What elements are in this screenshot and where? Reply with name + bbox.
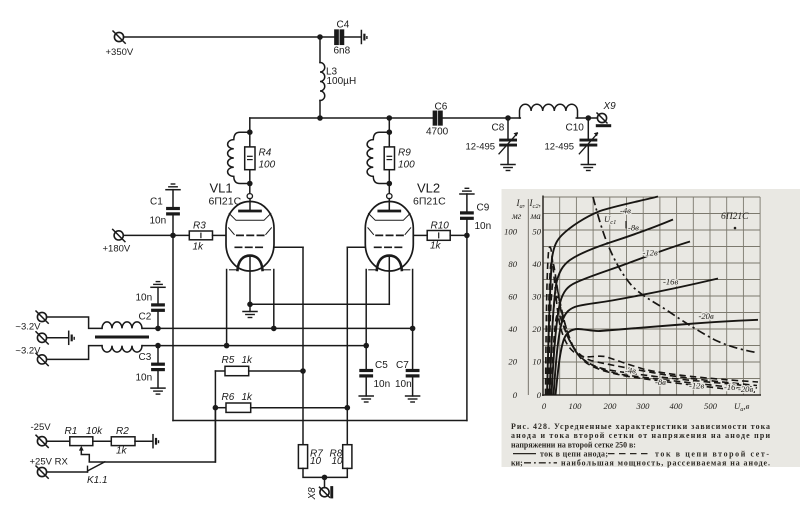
svg-text:~3.2V: ~3.2V xyxy=(15,322,41,333)
tube VL2 screen grid (dashed) xyxy=(375,246,404,248)
svg-text:10n: 10n xyxy=(150,216,167,227)
graph y-axis tick labels xyxy=(504,227,542,401)
svg-text:C2: C2 xyxy=(139,312,152,323)
resistor R2 xyxy=(111,437,135,446)
graph axes xyxy=(542,196,761,397)
svg-text:100: 100 xyxy=(398,160,415,171)
node R4 bottom xyxy=(247,181,253,187)
svg-text:+180V: +180V xyxy=(103,244,131,255)
resistor R4 xyxy=(245,147,255,170)
svg-text:20: 20 xyxy=(508,357,517,367)
svg-text:400: 400 xyxy=(670,401,684,411)
svg-text:-20в: -20в xyxy=(699,311,714,321)
node R9 top xyxy=(387,129,393,135)
tube VL2 envelope xyxy=(365,194,413,271)
ground right of T2 xyxy=(69,331,75,344)
capacitor C1 xyxy=(166,190,180,236)
svg-text:ма: ма xyxy=(530,211,542,221)
capacitor C6 xyxy=(433,111,442,125)
svg-text:100: 100 xyxy=(569,401,583,411)
svg-text:40: 40 xyxy=(532,259,541,269)
svg-text:+350V: +350V xyxy=(106,47,134,58)
svg-text:C10: C10 xyxy=(566,123,585,134)
svg-text:C5: C5 xyxy=(375,360,388,371)
svg-text:10: 10 xyxy=(310,456,322,467)
svg-text:100: 100 xyxy=(259,160,276,171)
svg-text:80: 80 xyxy=(508,259,517,269)
svg-text:-12в: -12в xyxy=(689,381,704,391)
wire R10 to C9 node xyxy=(450,234,467,236)
wire VL2 screen to R8 column xyxy=(347,247,365,444)
graph grid xyxy=(543,197,760,395)
svg-text:-16: -16 xyxy=(724,382,736,392)
svg-text:наибольшая мощность, рассеивае: наибольшая мощность, рассеиваемая на ано… xyxy=(561,459,770,468)
svg-text:анода и тока второй сетки от н: анода и тока второй сетки от напряжения … xyxy=(511,431,770,440)
svg-text:10: 10 xyxy=(532,357,541,367)
wire filament line lower xyxy=(158,345,366,347)
capacitor C5 xyxy=(359,346,373,396)
svg-text:K1.1: K1.1 xyxy=(87,475,108,486)
tube VL1 cathode xyxy=(230,256,271,270)
svg-text:100µH: 100µH xyxy=(327,76,357,87)
terminal filament mid xyxy=(36,332,48,344)
resistor R8 xyxy=(343,445,352,469)
svg-text:-25V: -25V xyxy=(31,422,52,433)
svg-text:C3: C3 xyxy=(139,352,152,363)
svg-text:C1: C1 xyxy=(150,197,163,208)
terminal +350V xyxy=(113,31,125,43)
svg-text:R4: R4 xyxy=(259,148,272,159)
wire +180V down to bottom bus xyxy=(172,235,174,420)
wire T1 to transformer xyxy=(47,317,102,328)
svg-text:40: 40 xyxy=(508,324,517,334)
resistor R3 xyxy=(189,231,212,240)
curve Ia Uc1=-8V (solid) xyxy=(550,220,674,396)
resistor R10 xyxy=(427,231,450,241)
svg-text:500: 500 xyxy=(704,401,718,411)
svg-text:10n: 10n xyxy=(374,379,391,390)
tube VL2 anode xyxy=(379,199,400,211)
svg-text:20: 20 xyxy=(532,324,541,334)
node R6 right / R8 column xyxy=(345,405,351,411)
wire T2 to ground xyxy=(47,337,69,339)
graph y-axis header Ia/Ic2 xyxy=(511,198,541,221)
svg-text:VL1: VL1 xyxy=(210,181,233,196)
tube VL1 anode xyxy=(240,199,261,211)
resistor R9 xyxy=(384,147,394,170)
node C10 xyxy=(586,115,592,121)
wire +180V to R3 xyxy=(123,234,189,236)
potentiometer R1 xyxy=(70,437,93,446)
svg-text:R2: R2 xyxy=(116,426,129,437)
svg-text:~3.2V: ~3.2V xyxy=(15,346,41,357)
wire winding to C2 node xyxy=(142,327,158,329)
svg-text:1k: 1k xyxy=(242,392,254,403)
svg-text:напряжении на второй сетке 250: напряжении на второй сетке 250 в: xyxy=(511,440,636,449)
svg-text:R6: R6 xyxy=(222,392,235,403)
caption legend strokes xyxy=(513,453,536,455)
wire VL1 anode branch xyxy=(249,118,251,194)
svg-text:ки;: ки; xyxy=(511,459,523,468)
curve Ia Uc1=-12V (solid) xyxy=(552,242,691,396)
wire +350V rail xyxy=(124,36,336,38)
terminal ~3.2V upper xyxy=(36,311,48,323)
wire anode bus xyxy=(250,117,434,119)
inductor output tank coil xyxy=(520,104,578,118)
svg-text:10k: 10k xyxy=(86,426,103,437)
wire VL2 anode branch xyxy=(388,118,390,194)
svg-text:X8: X8 xyxy=(307,487,318,501)
wire filament line upper xyxy=(158,327,413,329)
svg-text:100: 100 xyxy=(504,227,518,237)
node R5 right / screen column xyxy=(300,368,306,374)
terminal +25V RX xyxy=(36,466,48,478)
graph x-axis tick labels xyxy=(542,401,750,413)
svg-text:300: 300 xyxy=(636,401,651,411)
wire coil to X9 xyxy=(576,117,597,119)
svg-text:0: 0 xyxy=(513,390,518,400)
svg-text:C7: C7 xyxy=(396,360,409,371)
connector X8 xyxy=(320,477,334,498)
wire VL2 heater right xyxy=(412,270,414,329)
resistor R5 xyxy=(215,366,303,375)
tube VL2 control grid (dashed) xyxy=(376,234,403,236)
capacitor C3 xyxy=(151,346,165,388)
wire C6 to C8 node xyxy=(442,117,520,119)
svg-text:10: 10 xyxy=(332,456,344,467)
svg-text:200: 200 xyxy=(604,401,618,411)
svg-text:ток в цепи анода;: ток в цепи анода; xyxy=(540,449,608,458)
node anode bus / VL2 branch xyxy=(387,115,393,121)
wire VL1 screen to R7 column xyxy=(274,247,303,444)
tube VL2 beam plates xyxy=(368,214,411,235)
wire R1 to R2 xyxy=(93,440,112,442)
wire R3 to VL1 grid xyxy=(213,234,227,236)
connector X9 xyxy=(596,113,611,127)
wire bus up to R10/C9 node xyxy=(466,235,468,420)
ground below C10 xyxy=(581,165,595,171)
svg-text:C4: C4 xyxy=(337,20,350,31)
svg-text:6П21С: 6П21С xyxy=(209,196,242,208)
curve Ia Uc1=-4V (solid) xyxy=(547,197,658,396)
svg-text:12-495: 12-495 xyxy=(545,142,575,153)
svg-text:-8в: -8в xyxy=(655,377,666,387)
svg-text:-4в: -4в xyxy=(620,206,631,216)
inductor parallel with R4 xyxy=(228,132,250,183)
svg-text:30: 30 xyxy=(531,292,541,302)
wire R2 to ground xyxy=(135,440,153,442)
switch K1.1 contact xyxy=(88,462,105,472)
svg-text:-16в: -16в xyxy=(663,277,678,287)
wire VL1 cathode down xyxy=(249,256,251,304)
terminal ~3.2V lower xyxy=(36,353,48,365)
curve Ic2 -8V (dashed) xyxy=(547,262,757,395)
resistor R6 xyxy=(215,403,347,412)
wire VL1 heater right xyxy=(273,270,275,329)
node C8 xyxy=(505,115,511,121)
svg-text:4700: 4700 xyxy=(426,127,449,138)
ground above C1 xyxy=(166,184,180,190)
ground below C8 xyxy=(501,165,515,171)
inductor L3 xyxy=(320,37,325,118)
svg-text:VL2: VL2 xyxy=(417,181,440,196)
capacitor C7 xyxy=(406,328,420,396)
ground above C9 xyxy=(460,188,474,194)
node R6 left xyxy=(213,405,219,411)
curve Ic2 -16V (dashed) xyxy=(550,297,757,395)
node heater junctions xyxy=(271,326,277,332)
node C1/R3 junction xyxy=(170,233,176,239)
svg-text:Рис. 428. Усредненные характер: Рис. 428. Усредненные характеристики зав… xyxy=(511,422,770,431)
ground above C2 xyxy=(151,282,165,288)
curve Ic2 -12V (dashed) xyxy=(549,280,758,395)
wire +25V RX to switch xyxy=(47,471,88,473)
svg-text:C8: C8 xyxy=(492,123,505,134)
svg-text:R5: R5 xyxy=(222,355,235,366)
terminal +180V xyxy=(113,229,125,241)
capacitor C2 xyxy=(151,287,165,328)
svg-text:60: 60 xyxy=(508,292,517,302)
svg-text:1k: 1k xyxy=(193,242,205,253)
wire VL2 cathode down xyxy=(388,256,390,304)
node R4 top xyxy=(247,129,253,135)
potentiometer R1 wiper xyxy=(79,446,89,462)
variable capacitor C10 xyxy=(579,118,598,164)
variable capacitor C8 xyxy=(499,118,518,164)
svg-text:0: 0 xyxy=(542,401,547,411)
svg-text:6П21С: 6П21С xyxy=(413,196,446,208)
wire R7/R8 bottoms to X8 xyxy=(303,468,347,477)
resistor R7 xyxy=(298,445,307,469)
node R9 bottom xyxy=(387,181,393,187)
figure caption xyxy=(511,422,770,468)
tube VL1 control grid (dashed) xyxy=(237,234,264,236)
wire winding to C3 node xyxy=(142,345,158,347)
wire VL2 grid to R10 xyxy=(413,234,427,236)
wire R5 left down to R6 xyxy=(214,371,216,462)
transformer secondary winding xyxy=(102,346,142,353)
svg-text:R10: R10 xyxy=(431,221,450,232)
wire bias line to R6 node xyxy=(89,408,215,462)
node anode bus / L3 xyxy=(317,115,323,121)
tube VL2 cathode xyxy=(369,256,410,270)
svg-text:6n8: 6n8 xyxy=(334,46,351,57)
svg-text:R9: R9 xyxy=(398,148,411,159)
ground below C7 xyxy=(406,396,420,402)
svg-text:1k: 1k xyxy=(430,241,442,252)
transformer core xyxy=(97,336,148,339)
graph panel background (scanned chart inset) xyxy=(502,189,800,467)
wire VL1 heater left xyxy=(226,270,228,346)
svg-text:10n: 10n xyxy=(395,379,412,390)
svg-text:X9: X9 xyxy=(603,101,617,112)
capacitor C4 xyxy=(335,30,344,44)
wire cathode tie xyxy=(250,303,389,305)
svg-text:1k: 1k xyxy=(242,355,254,366)
curve Ic2 -20V (dashed) xyxy=(552,314,758,395)
ground right of R2 xyxy=(153,435,159,448)
curve Ia Uc1=-20V (solid) xyxy=(556,320,759,395)
wire VL2 heater left xyxy=(365,270,367,346)
svg-text:R3: R3 xyxy=(193,221,206,232)
ground VL1 cathode xyxy=(243,304,257,317)
curve max anode dissipation (dash-dot) xyxy=(593,197,756,353)
svg-text:10n: 10n xyxy=(136,373,153,384)
svg-text:ток в цепи второй сет-: ток в цепи второй сет- xyxy=(655,449,769,458)
svg-text:-20в: -20в xyxy=(738,384,753,394)
wire -25V to R1 xyxy=(47,440,70,442)
node L3/C4 junction xyxy=(317,34,323,40)
svg-text:мг: мг xyxy=(511,211,522,221)
svg-text:+25V RX: +25V RX xyxy=(30,457,69,468)
ground below C3 xyxy=(151,388,165,394)
capacitor C9 xyxy=(460,194,474,235)
ground below C5 xyxy=(359,396,373,402)
wire C4 to ground xyxy=(344,36,361,38)
tube VL1 envelope xyxy=(226,194,274,271)
tube VL1 beam plates xyxy=(229,214,272,235)
svg-text:6П21С: 6П21С xyxy=(721,212,749,222)
terminal -25V xyxy=(36,435,48,447)
svg-text:-8в: -8в xyxy=(628,223,639,233)
svg-text:50: 50 xyxy=(532,227,541,237)
curve Ic2 -4V (dashed) xyxy=(546,247,759,395)
graph curve labels xyxy=(604,206,753,395)
curve Ia Uc1=-16V (solid) xyxy=(554,279,719,396)
svg-text:10n: 10n xyxy=(136,293,153,304)
svg-text:-12в: -12в xyxy=(643,248,658,258)
tube VL1 screen grid (dashed) xyxy=(235,246,264,248)
svg-text:-4в: -4в xyxy=(625,366,636,376)
svg-text:10n: 10n xyxy=(475,221,492,232)
svg-text:12-495: 12-495 xyxy=(466,142,496,153)
svg-text:C9: C9 xyxy=(477,203,490,214)
svg-text:R1: R1 xyxy=(65,426,78,437)
ground right of C4 xyxy=(361,31,367,44)
svg-text:1k: 1k xyxy=(116,446,128,457)
transformer primary winding xyxy=(102,322,142,328)
node X8 junction xyxy=(322,475,328,481)
node cathode ground xyxy=(247,302,253,308)
wire bottom bus xyxy=(173,420,467,422)
wire T3 to transformer xyxy=(47,346,102,360)
svg-text:C6: C6 xyxy=(435,102,448,113)
svg-text:0: 0 xyxy=(537,390,542,400)
inductor parallel with R9 xyxy=(367,132,389,183)
node R10/C9 junction xyxy=(464,233,470,239)
